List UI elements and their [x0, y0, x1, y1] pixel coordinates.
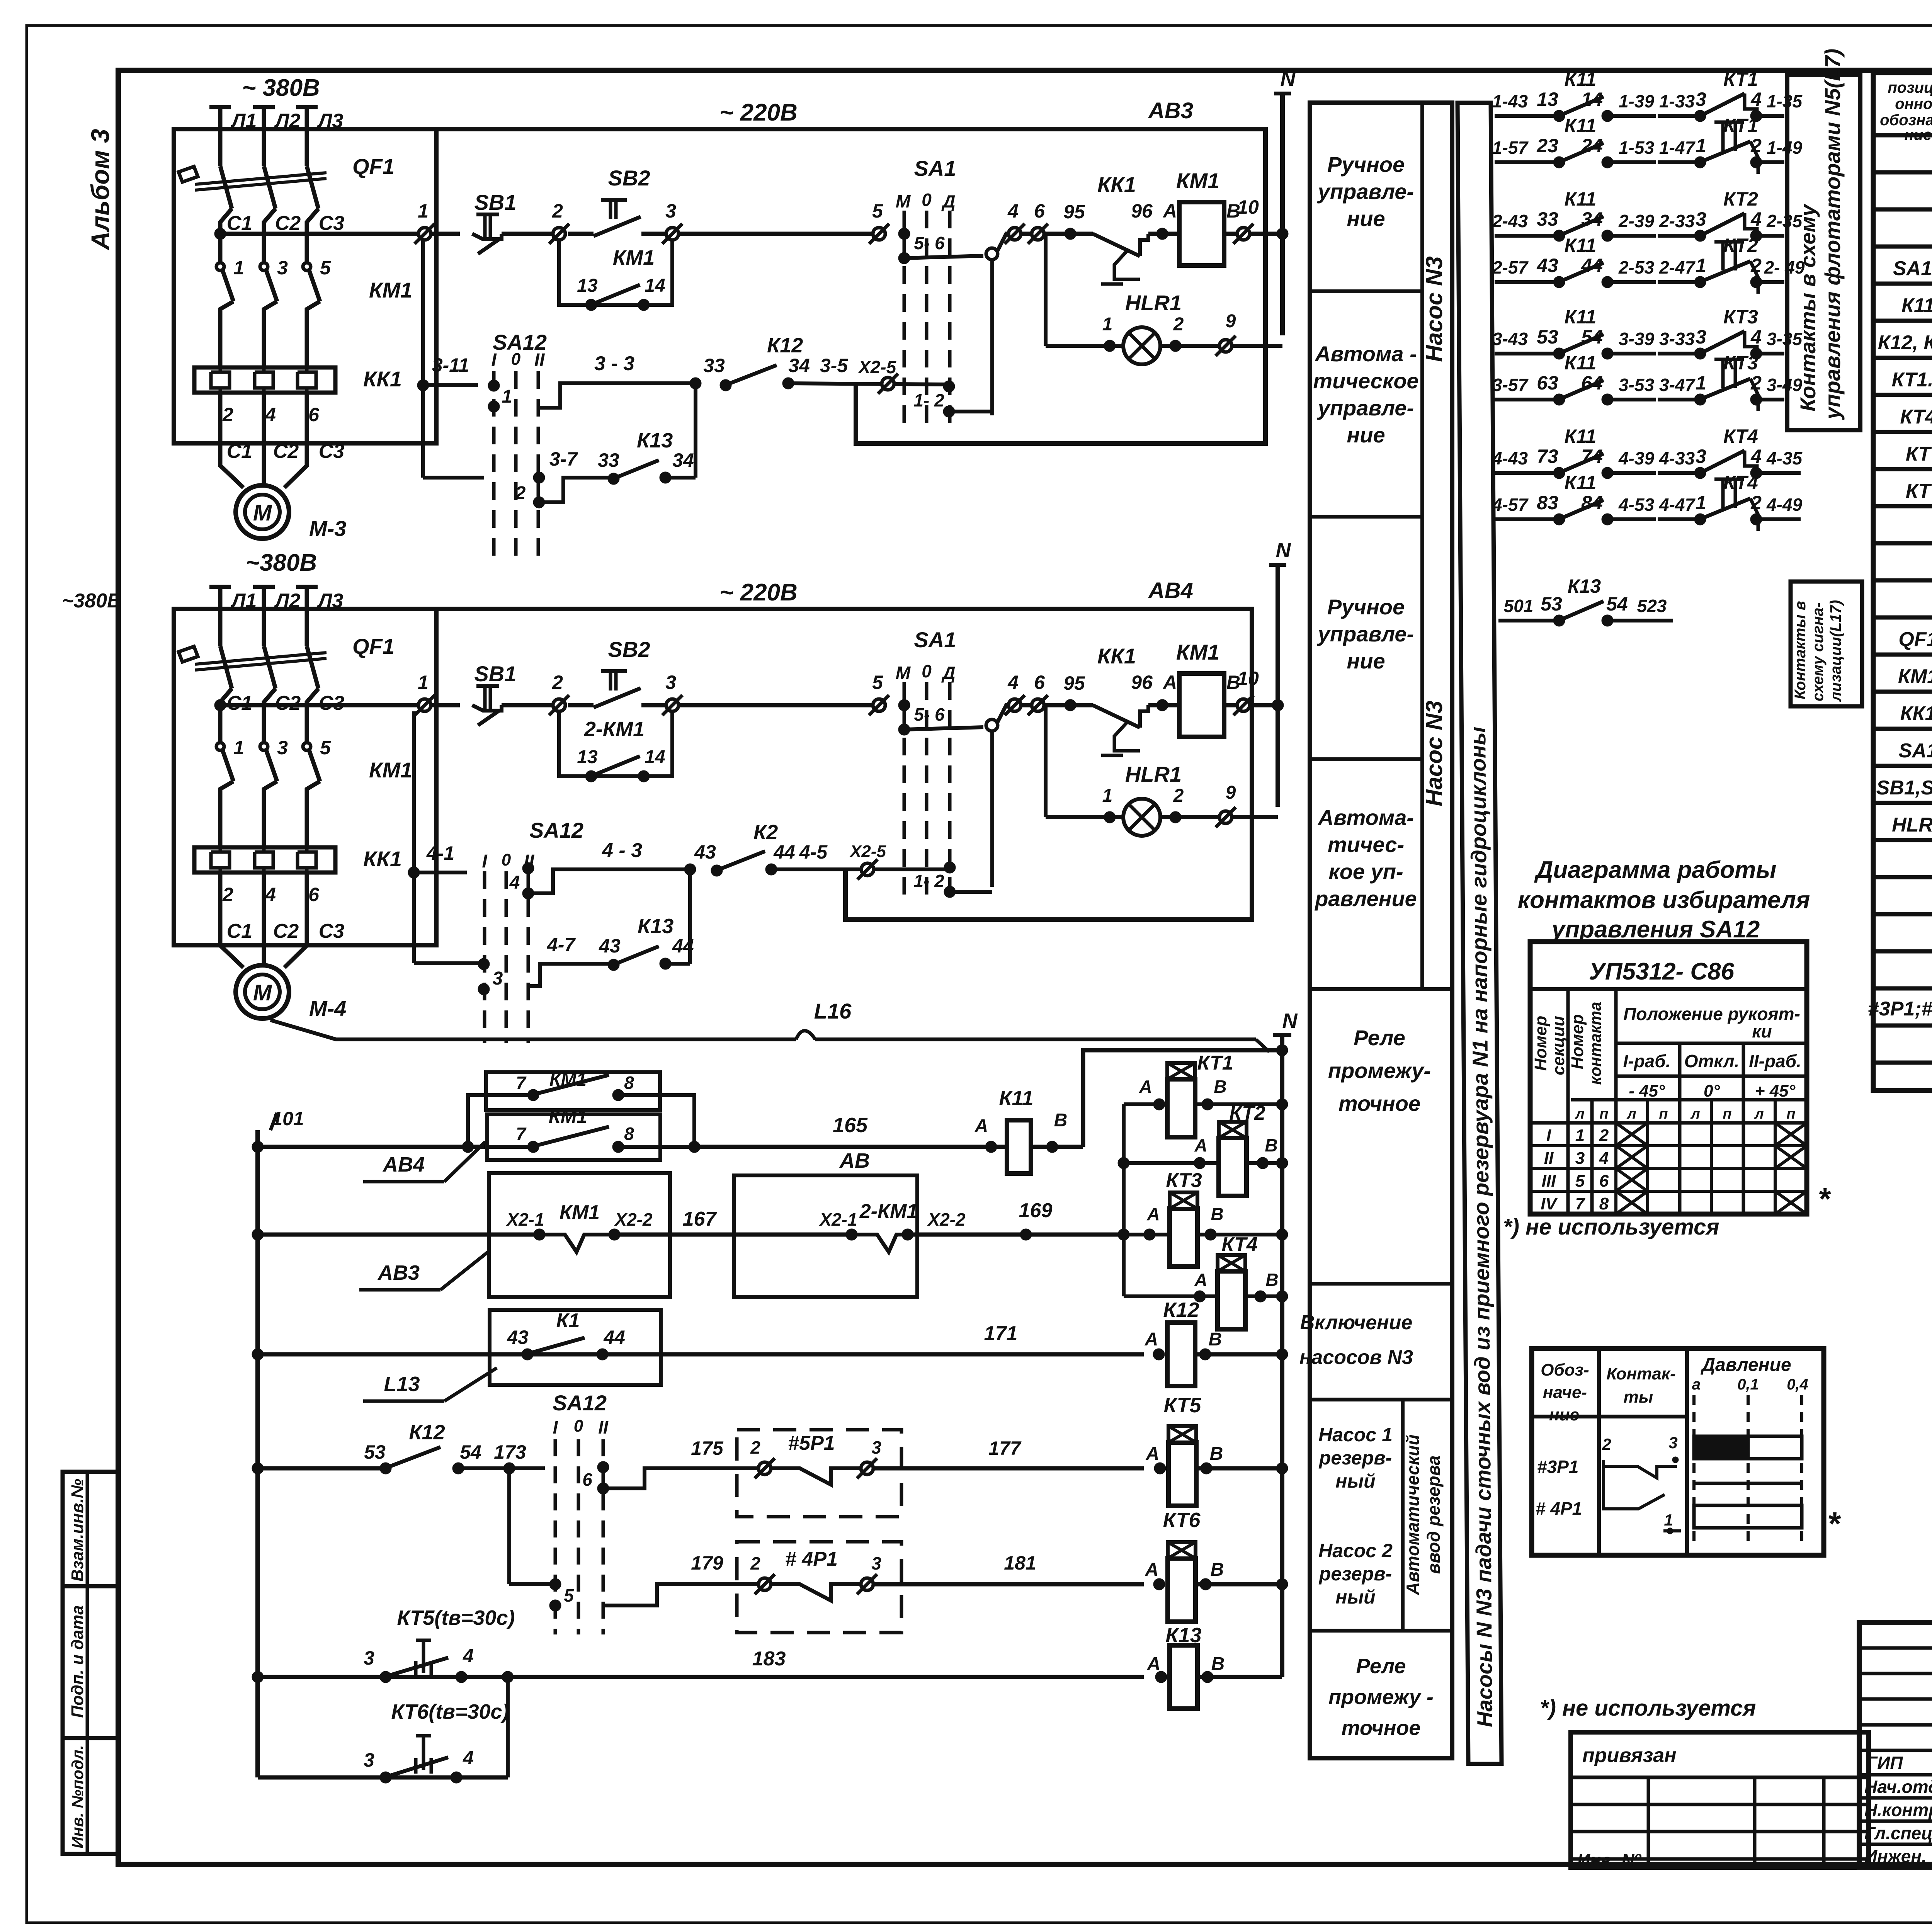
svg-text:Реле: Реле — [1354, 1026, 1405, 1050]
wire 3-7 to K13 contact — [539, 383, 696, 502]
svg-text:QF1: QF1 — [352, 634, 395, 658]
svg-text:Автоматический: Автоматический — [1403, 1434, 1423, 1595]
svg-text:4-1: 4-1 — [426, 842, 454, 864]
svg-text:К11: К11 — [1565, 188, 1597, 210]
svg-text:КТ4: КТ4 — [1900, 406, 1932, 428]
svg-text:96: 96 — [1131, 672, 1153, 693]
svg-text:1: 1 — [1696, 372, 1706, 394]
svg-text:КТ1: КТ1 — [1723, 115, 1758, 136]
motor leads C1 C2 C3 — [220, 440, 344, 488]
svg-text:лизации(L17): лизации(L17) — [1827, 600, 1844, 702]
selector SA12 (circuit 2) — [408, 711, 583, 1043]
svg-text:53: 53 — [1541, 593, 1562, 615]
svg-text:Инв. №подл.: Инв. №подл. — [68, 1745, 87, 1848]
svg-text:3-53: 3-53 — [1619, 375, 1654, 395]
svg-text:Гл.спец.: Гл.спец. — [1864, 1823, 1932, 1843]
svg-text:М: М — [253, 980, 272, 1005]
rung 167/169 with KM1 X2 contacts — [252, 1149, 1124, 1297]
svg-text:В: В — [1211, 1560, 1224, 1580]
phase labels C1 C2 C3 — [227, 692, 345, 714]
svg-text:4-5: 4-5 — [799, 841, 828, 863]
svg-text:ввод резерва: ввод резерва — [1423, 1456, 1444, 1574]
svg-text:73: 73 — [1537, 446, 1558, 467]
svg-text:М-4: М-4 — [309, 996, 346, 1020]
svg-text:13: 13 — [577, 747, 598, 767]
svg-text:ние: ние — [1347, 649, 1385, 673]
component list table — [1873, 73, 1932, 1090]
svg-text:N: N — [1276, 539, 1291, 562]
svg-text:SA1: SA1 — [914, 628, 956, 652]
svg-text:В: В — [1211, 1204, 1223, 1224]
svg-text:2: 2 — [1750, 372, 1762, 394]
wire 4-6 to KK1 contact — [1005, 200, 1088, 244]
svg-text:онное: онное — [1895, 95, 1932, 112]
svg-text:34: 34 — [1581, 208, 1603, 230]
svg-text:ки: ки — [1752, 1021, 1772, 1041]
svg-text:179: 179 — [691, 1552, 723, 1574]
svg-text:64: 64 — [1581, 372, 1603, 394]
svg-text:К13: К13 — [638, 915, 673, 938]
svg-text:л: л — [1754, 1106, 1764, 1122]
svg-text:Х2-5: Х2-5 — [849, 842, 886, 861]
svg-text:7: 7 — [516, 1073, 527, 1093]
rung 175/177 with K12 contact and SA12 — [252, 1421, 545, 1474]
svg-text:К13: К13 — [1568, 575, 1601, 597]
aux contacts K11/KT1 row 1 — [1492, 68, 1803, 122]
svg-text:II: II — [1544, 1149, 1554, 1168]
svg-text:#3Р1;#4Р1: #3Р1;#4Р1 — [1868, 998, 1932, 1020]
svg-text:КТ4: КТ4 — [1723, 472, 1758, 493]
svg-text:КМ1: КМ1 — [1898, 665, 1932, 688]
time relay KT1 branch — [1124, 1052, 1288, 1296]
label Автоматическое управление 2 — [1314, 805, 1417, 911]
note not used 1 — [1503, 1214, 1719, 1240]
motor M-3 — [236, 485, 346, 576]
svg-text:3-11: 3-11 — [432, 354, 469, 376]
row SA1 — [1898, 738, 1932, 762]
supply label ~380V — [62, 590, 122, 612]
enclosure box АВ3 — [174, 98, 1265, 444]
svg-text:43: 43 — [694, 841, 716, 863]
svg-text:КК1: КК1 — [1097, 172, 1136, 197]
svg-text:промежу-: промежу- — [1328, 1058, 1431, 1083]
control bus ~220V — [719, 99, 798, 126]
svg-text:Ручное: Ручное — [1327, 152, 1405, 177]
svg-text:равление: равление — [1314, 886, 1417, 911]
svg-text:# 4Р1: # 4Р1 — [785, 1548, 838, 1570]
svg-text:ты: ты — [1624, 1388, 1653, 1406]
svg-text:п: п — [1723, 1106, 1731, 1122]
svg-text:Контакты в: Контакты в — [1792, 601, 1809, 699]
start button SB2 — [549, 637, 879, 715]
svg-text:Ручное: Ручное — [1327, 595, 1405, 619]
svg-text:44: 44 — [773, 841, 795, 863]
svg-text:167: 167 — [683, 1208, 717, 1230]
motor leads C1 C2 C3 — [220, 920, 344, 968]
rung 171 with K1 contact — [252, 1310, 1144, 1401]
svg-text:1: 1 — [502, 386, 512, 407]
svg-text:КТ: КТ — [1906, 443, 1932, 465]
svg-text:М: М — [896, 663, 911, 683]
svg-text:2: 2 — [1750, 255, 1762, 276]
svg-text:ние: ние — [1549, 1405, 1579, 1424]
svg-text:~ 220В: ~ 220В — [719, 579, 798, 606]
svg-text:74: 74 — [1581, 446, 1603, 467]
tilted pump duty strip — [1458, 103, 1502, 1764]
svg-text:*) не используется: *) не используется — [1503, 1214, 1719, 1240]
svg-text:10: 10 — [1237, 196, 1259, 218]
svg-text:SA1: SA1 — [914, 156, 956, 180]
svg-text:управления SA12: управления SA12 — [1551, 916, 1760, 943]
svg-text:5: 5 — [320, 257, 331, 279]
svg-text:К11: К11 — [1565, 68, 1597, 90]
wire 4-6 to KK1 contact — [1005, 672, 1088, 715]
svg-text:SB1: SB1 — [474, 190, 517, 214]
svg-text:5- 6: 5- 6 — [914, 233, 945, 253]
svg-text:8: 8 — [624, 1073, 634, 1093]
svg-text:Номер: Номер — [1531, 1016, 1550, 1071]
svg-text:3: 3 — [1668, 1434, 1677, 1452]
svg-text:4: 4 — [1007, 200, 1019, 222]
row manometer — [1868, 997, 1932, 1020]
stop button SB1 — [472, 190, 559, 254]
contactor coil KM1 — [1176, 168, 1265, 265]
svg-text:24: 24 — [1581, 135, 1603, 156]
svg-text:2: 2 — [750, 1553, 760, 1573]
svg-text:кое уп-: кое уп- — [1328, 859, 1403, 884]
svg-text:5: 5 — [1575, 1172, 1585, 1190]
svg-text:~380В: ~380В — [246, 549, 317, 576]
svg-text:Номер: Номер — [1568, 1014, 1587, 1070]
svg-text:1-53: 1-53 — [1619, 138, 1654, 158]
svg-text:Насос 2: Насос 2 — [1318, 1540, 1393, 1561]
svg-text:А: А — [1162, 200, 1177, 222]
svg-text:л: л — [1575, 1106, 1585, 1122]
svg-text:III: III — [1542, 1172, 1556, 1190]
feeder L1 L2 L3 — [209, 107, 343, 166]
svg-text:К12: К12 — [409, 1421, 445, 1444]
svg-text:КМ1: КМ1 — [549, 1070, 587, 1090]
svg-text:схему сигна-: схему сигна- — [1810, 602, 1827, 701]
relay coil K12 (rung) — [1145, 1298, 1288, 1386]
svg-text:1: 1 — [233, 257, 244, 279]
svg-text:43: 43 — [599, 935, 621, 957]
svg-text:КТ2: КТ2 — [1723, 188, 1758, 210]
svg-text:1: 1 — [233, 737, 244, 759]
svg-text:2: 2 — [222, 404, 233, 425]
pressure switch table — [1532, 1349, 1841, 1555]
wire 4-7 to K13 contact — [528, 869, 694, 986]
svg-text:N: N — [1281, 67, 1296, 90]
svg-text:управления флотаторами N5(L7: управления флотаторами N5(L7) — [1820, 49, 1845, 420]
svg-text:2-33: 2-33 — [1659, 211, 1695, 231]
svg-text:7: 7 — [516, 1124, 527, 1144]
svg-text:IV: IV — [1541, 1194, 1558, 1213]
aux contacts K11/KT4 row 7 — [1492, 425, 1803, 479]
svg-text:I: I — [482, 851, 488, 872]
thermal relay KK1 heaters — [194, 367, 402, 443]
svg-text:2: 2 — [1599, 1126, 1609, 1145]
svg-text:I: I — [553, 1417, 558, 1437]
svg-text:КМ1: КМ1 — [369, 758, 412, 782]
title block frame — [1859, 1622, 1932, 1867]
svg-text:8: 8 — [624, 1124, 634, 1144]
svg-text:Инв. Nº: Инв. Nº — [1577, 1850, 1641, 1870]
svg-text:К12: К12 — [767, 334, 803, 357]
svg-text:А: А — [1162, 672, 1177, 693]
svg-text:6: 6 — [1034, 672, 1045, 693]
note box Контакты в схему управления флотаторами — [1787, 49, 1860, 430]
svg-text:53: 53 — [1537, 326, 1558, 348]
svg-text:КМ1: КМ1 — [1176, 168, 1219, 193]
svg-text:УП5312- С86: УП5312- С86 — [1589, 958, 1735, 985]
svg-text:3-39: 3-39 — [1619, 329, 1654, 349]
svg-text:КМ1: КМ1 — [613, 246, 655, 269]
vertical label Автоматический ввод резерва — [1403, 1434, 1444, 1595]
svg-text:43: 43 — [507, 1327, 529, 1348]
neutral rail N — [1265, 67, 1296, 335]
row SA12 — [1893, 255, 1932, 280]
svg-text:контактов избирателя: контактов избирателя — [1518, 887, 1810, 913]
svg-text:Контак-: Контак- — [1606, 1364, 1675, 1383]
svg-text:2: 2 — [222, 884, 233, 905]
svg-text:КТ3: КТ3 — [1723, 306, 1758, 328]
aux contacts K11/KT4 row 8 — [1492, 472, 1802, 531]
svg-text:2: 2 — [1602, 1435, 1611, 1453]
svg-text:М: М — [896, 191, 911, 211]
svg-text:секции: секции — [1549, 1016, 1568, 1075]
seal-in contact KM1 13-14 — [559, 240, 672, 311]
svg-text:резерв-: резерв- — [1318, 1447, 1392, 1469]
svg-text:Давление: Давление — [1700, 1355, 1791, 1375]
svg-text:3: 3 — [871, 1553, 881, 1573]
signal lamp HLR1 — [1046, 234, 1282, 364]
row K11 — [1901, 293, 1932, 317]
svg-text:4-49: 4-49 — [1766, 495, 1802, 515]
svg-text:Л3: Л3 — [317, 590, 344, 612]
svg-text:4-33: 4-33 — [1659, 448, 1695, 468]
svg-text:1- 2: 1- 2 — [913, 390, 944, 410]
svg-text:АВ4: АВ4 — [382, 1153, 425, 1176]
svg-text:К11: К11 — [1565, 115, 1597, 136]
svg-text:К11: К11 — [1565, 352, 1597, 374]
svg-text:Положение рукоят-: Положение рукоят- — [1623, 1004, 1800, 1024]
svg-text:0: 0 — [511, 350, 521, 369]
svg-text:2: 2 — [1750, 135, 1762, 156]
svg-text:2-КМ1: 2-КМ1 — [584, 718, 645, 741]
time relay KT2 branch — [1118, 1102, 1288, 1196]
svg-text:4: 4 — [265, 884, 276, 905]
svg-text:промежу -: промежу - — [1328, 1685, 1434, 1709]
svg-text:Контакты в схему: Контакты в схему — [1796, 203, 1820, 412]
svg-text:А: А — [1146, 1204, 1160, 1224]
control wire from C1 to KM1 coil — [214, 200, 460, 244]
time relay KT4 branch — [1124, 1233, 1288, 1329]
branch with KT6 contact — [258, 1677, 509, 1783]
svg-text:КТ4: КТ4 — [1221, 1233, 1257, 1256]
row KM1 — [1898, 663, 1932, 688]
row KK1 — [1900, 701, 1932, 725]
svg-text:6: 6 — [308, 404, 320, 425]
svg-text:54: 54 — [1606, 593, 1628, 615]
svg-text:I: I — [491, 350, 497, 371]
pressure switch #5P1 — [691, 1430, 1144, 1517]
svg-text:SA12: SA12 — [553, 1391, 607, 1415]
svg-text:3-7: 3-7 — [549, 448, 578, 470]
label Насос 1 резервный — [1318, 1424, 1393, 1492]
neutral tick N (ladder) — [1273, 1009, 1298, 1677]
svg-text:SB2: SB2 — [608, 637, 650, 662]
svg-text:3: 3 — [493, 968, 503, 989]
relay coil K11 — [975, 1044, 1288, 1173]
svg-text:4: 4 — [1599, 1149, 1609, 1168]
svg-text:63: 63 — [1537, 372, 1558, 394]
svg-text:управле-: управле- — [1317, 622, 1414, 646]
svg-text:привязан: привязан — [1582, 1744, 1677, 1767]
svg-text:2-39: 2-39 — [1618, 211, 1654, 231]
svg-text:3: 3 — [1696, 88, 1706, 110]
circuit breaker QF1 — [179, 634, 395, 716]
svg-text:1-33: 1-33 — [1659, 91, 1695, 111]
svg-text:4: 4 — [265, 404, 276, 425]
svg-text:КМ1: КМ1 — [1176, 640, 1219, 664]
svg-text:Л1: Л1 — [230, 110, 257, 132]
selector SA12 (ladder) — [509, 1391, 692, 1634]
svg-text:Взам.инв.№: Взам.инв.№ — [68, 1479, 87, 1582]
svg-text:HLR1: HLR1 — [1125, 291, 1182, 315]
svg-text:4: 4 — [1007, 672, 1019, 693]
contactor coil KM1 — [1176, 640, 1259, 737]
svg-text:2-КМ1: 2-КМ1 — [859, 1200, 918, 1223]
row K12,K13 — [1878, 330, 1932, 354]
wire 3-3 to K12 contact — [539, 334, 992, 417]
svg-text:АВ4: АВ4 — [1148, 578, 1193, 603]
function label column — [1310, 103, 1452, 1758]
svg-text:точное: точное — [1338, 1091, 1420, 1116]
svg-text:Д: Д — [941, 663, 955, 683]
svg-text:КТ6: КТ6 — [1163, 1509, 1201, 1532]
svg-text:Подп. и дата: Подп. и дата — [68, 1605, 87, 1718]
svg-text:9: 9 — [1226, 311, 1236, 332]
svg-text:0°: 0° — [1704, 1082, 1720, 1100]
svg-text:- 45°: - 45° — [1629, 1082, 1665, 1100]
svg-text:II-раб.: II-раб. — [1749, 1051, 1801, 1071]
svg-text:14: 14 — [645, 747, 665, 767]
svg-text:175: 175 — [691, 1437, 724, 1459]
svg-text:п: п — [1599, 1106, 1608, 1122]
svg-text:2: 2 — [515, 483, 526, 503]
vertical label Насос N3 (upper) — [1421, 256, 1447, 362]
svg-text:6: 6 — [1034, 200, 1045, 222]
svg-text:4-7: 4-7 — [547, 934, 576, 956]
svg-text:0: 0 — [922, 661, 932, 681]
label Реле промежуточное 2 — [1328, 1655, 1434, 1740]
wire 4-3 to K2 contact — [528, 821, 992, 898]
svg-text:54: 54 — [1581, 326, 1603, 348]
svg-text:К11: К11 — [1565, 306, 1597, 328]
svg-text:1-43: 1-43 — [1492, 91, 1528, 111]
start button SB2 — [549, 166, 879, 244]
svg-text:А: А — [1145, 1329, 1158, 1350]
svg-text:1: 1 — [1102, 786, 1113, 806]
svg-text:523: 523 — [1637, 596, 1667, 616]
signal lamp HLR1 — [1046, 705, 1278, 836]
svg-text:II: II — [534, 350, 545, 371]
svg-text:АВ3: АВ3 — [1148, 98, 1193, 123]
svg-text:33: 33 — [703, 355, 725, 376]
seal-in contact KM1 13-14 — [559, 711, 672, 782]
svg-text:95: 95 — [1063, 201, 1085, 223]
svg-text:7: 7 — [1575, 1194, 1586, 1213]
svg-text:QF1: QF1 — [352, 154, 395, 179]
svg-text:Насос N3: Насос N3 — [1421, 701, 1447, 806]
svg-text:В: В — [1209, 1329, 1222, 1350]
svg-text:В: В — [1265, 1270, 1278, 1290]
aux contact K13 row — [1498, 575, 1673, 626]
svg-text:1: 1 — [1102, 314, 1113, 335]
doc binding table (привязан) — [1571, 1732, 1869, 1870]
svg-text:4-35: 4-35 — [1766, 448, 1803, 468]
svg-text:Н.контр.: Н.контр. — [1864, 1800, 1932, 1820]
svg-text:С3: С3 — [319, 212, 345, 235]
svg-text:Д: Д — [941, 191, 955, 211]
svg-text:~ 220В: ~ 220В — [719, 99, 798, 126]
control wire from C1 to KM1 coil — [214, 672, 460, 715]
label Включение насосов N3 — [1299, 1311, 1413, 1369]
svg-text:К12, К13: К12, К13 — [1878, 332, 1932, 354]
svg-text:А: А — [1139, 1077, 1152, 1097]
svg-text:23: 23 — [1536, 135, 1558, 156]
svg-text:С2: С2 — [275, 212, 301, 235]
svg-text:53: 53 — [364, 1441, 386, 1463]
svg-text:управле-: управле- — [1317, 396, 1414, 420]
svg-text:4-47: 4-47 — [1659, 495, 1696, 515]
svg-text:2-43: 2-43 — [1492, 211, 1528, 231]
svg-text:А: А — [1194, 1135, 1207, 1155]
svg-text:I-раб.: I-раб. — [1623, 1051, 1670, 1071]
svg-text:SB1: SB1 — [474, 662, 517, 686]
rung 179/181 with pressure switch #4P1 — [691, 1542, 1144, 1633]
svg-text:Л1: Л1 — [230, 590, 257, 612]
svg-text:#3Р1: #3Р1 — [1537, 1457, 1578, 1477]
thermal contact KK1 95-96 — [1065, 172, 1179, 284]
svg-text:позици-: позици- — [1888, 79, 1932, 96]
aux contacts K11/KT1 row 2 — [1492, 115, 1802, 174]
svg-text:0,1: 0,1 — [1737, 1376, 1759, 1393]
svg-text:9: 9 — [1226, 782, 1236, 803]
row QF1 — [1898, 626, 1932, 651]
svg-text:0,4: 0,4 — [1787, 1376, 1808, 1393]
svg-text:1-35: 1-35 — [1767, 91, 1803, 111]
label Автоматическое управление — [1313, 342, 1418, 447]
svg-text:К2: К2 — [753, 821, 778, 844]
svg-text:*: * — [1818, 1182, 1831, 1216]
svg-text:6: 6 — [582, 1469, 592, 1490]
thermal contact KK1 95-96 — [1065, 644, 1179, 755]
svg-text:96: 96 — [1131, 200, 1153, 222]
svg-text:М-3: М-3 — [309, 516, 346, 541]
svg-text:КМ1: КМ1 — [369, 278, 412, 302]
aux contacts K11/KT2 row 3 — [1492, 188, 1803, 241]
svg-text:34: 34 — [788, 355, 810, 376]
svg-text:3: 3 — [1696, 208, 1706, 230]
svg-text:0: 0 — [502, 850, 511, 869]
svg-text:3: 3 — [364, 1749, 374, 1771]
svg-text:2-47: 2-47 — [1659, 257, 1696, 277]
svg-text:К11: К11 — [1565, 235, 1597, 256]
svg-text:Х2-2: Х2-2 — [927, 1209, 966, 1230]
svg-text:54: 54 — [460, 1441, 481, 1463]
